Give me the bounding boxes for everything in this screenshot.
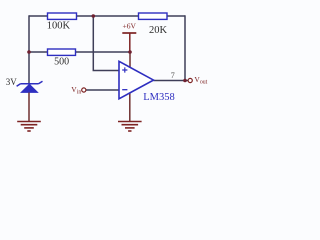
wire: inverting input from Vin terminal [86,89,119,91]
svg-text:7: 7 [171,71,175,80]
junction dot: +IN node on top rail [92,14,96,18]
svg-text:LM358: LM358 [143,92,175,103]
power symbol +6V: bar [122,32,136,34]
wire: top rail left segment [29,15,48,17]
svg-text:3V: 3V [6,77,18,87]
resistor R3 body (20K) [139,13,168,19]
wire: zener anode to ground [28,93,30,122]
junction dot: feedback joins output [183,79,187,83]
resistor R1 body (100K) [48,13,77,19]
svg-text:20K: 20K [149,25,168,36]
op-amp U1 inverting input mark (-) [122,89,127,91]
junction dot: 500 joins reference node [27,50,31,54]
junction dot: +6V node [128,50,132,54]
wire: 500 row left segment [29,51,48,53]
wire: top rail right segment [167,15,186,17]
power symbol +6V: stem [129,33,131,52]
zener diode D1: cathode bar with ticks [17,81,43,86]
op-amp U1 non-inverting input mark (+) [122,67,127,72]
wire: 500 row right segment to +6V node [76,51,131,53]
wire: op-amp V- pin down to ground [129,92,131,121]
wire: right feedback vertical (output to 20K) [184,15,186,80]
zener diode D1: anode triangle [21,84,38,92]
wire: non-inverting input from top rail [93,16,119,71]
output port Vout terminal circle [188,78,192,82]
svg-text:100K: 100K [47,21,71,32]
svg-text:500: 500 [54,57,69,68]
svg-text:+6V: +6V [122,21,136,30]
wire: top rail middle segment (node +IN) [76,15,139,17]
ground symbol (below zener) [17,122,41,132]
input port Vin terminal circle [82,88,86,92]
wire: op-amp output to Vout terminal [154,80,189,82]
wire: left vertical (3V reference node) [28,15,30,84]
ground symbol (below op-amp) [118,122,142,132]
wire: op-amp V+ pin from +6V node [129,52,131,68]
op-amp U1 triangle [119,61,154,99]
resistor R2 body (500) [48,49,76,55]
